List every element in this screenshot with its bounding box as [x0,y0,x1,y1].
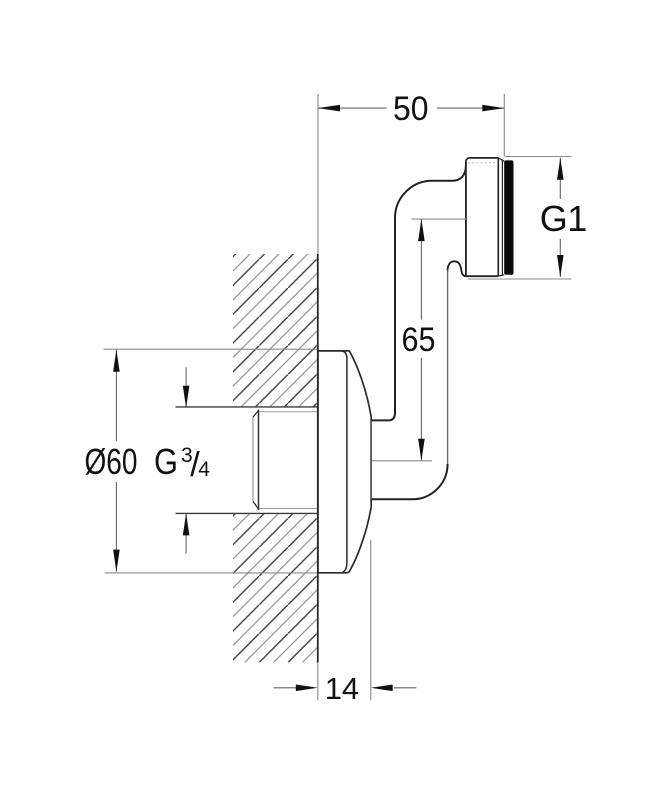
centerline top outlet (65 ref) [412,218,466,220]
dim 14 arrow pointing left [371,685,393,692]
dim G1 arrow down [557,255,564,277]
union nut top edge [468,157,498,159]
threaded nipple chamfer bottom [253,502,259,510]
dim G1 line bottom segment [559,239,561,277]
dim 14 extension line right (flange front) [370,540,372,700]
union nut left face edge [465,160,467,276]
s-pipe body fill [372,165,466,499]
dim 50 extension line right [503,94,505,157]
dim 14 arrow pointing right [296,685,318,692]
union nut ring line [501,160,503,275]
extension line dia60 bottom (over wall) [105,572,318,574]
dim G3-4 arrow up (to thread bottom) [183,513,190,535]
dim 50 line right segment [437,107,504,109]
threaded nipple thread root bottom [259,508,318,510]
svg-text:14: 14 [325,671,359,706]
s-pipe inner contour (bottom bend) [372,464,448,499]
extension line dia60 top (over wall) [104,348,318,350]
G1 seal band (black) [504,160,513,274]
wall hole top edge / G3-4 extension [176,406,318,408]
dim 50 line left segment [318,107,387,109]
svg-text:50: 50 [393,90,429,128]
s-pipe right edge [447,270,449,464]
dim dia60 line bottom segment [115,482,117,572]
svg-text:Ø60: Ø60 [85,441,138,482]
union nut chamfer top [498,158,504,161]
dim 14 right tail [394,687,416,689]
dim 65 arrow up [418,219,425,241]
threaded nipple thread start edge [258,410,260,511]
s-pipe outer contour (top) [372,165,466,420]
union nut bottom edge [465,275,498,277]
dim G1 extension line bottom [468,278,572,280]
dim G1 arrow up [557,158,564,180]
dim 14 left tail [274,687,298,689]
dim 65 line top segment [420,219,422,320]
union nut chamfer bottom [498,275,504,276]
union nut thread texture dotted line [468,162,497,164]
flange body (wall rosette) [318,351,371,573]
flange dome base junction line [342,351,347,573]
threaded nipple chamfer top [253,411,259,418]
svg-text:1: 1 [567,198,587,239]
dim G1 line top segment [559,158,561,199]
dim 65 line bottom segment [420,358,422,461]
dim 50 extension line left [317,94,319,254]
svg-text:65: 65 [402,321,436,359]
dim G3-4 line lower segment [185,513,187,553]
wall hatched section (lower part, below pipe hole) [233,514,318,663]
threaded nipple end face [252,417,254,502]
wall hatched section (upper part, above pipe hole) [233,254,318,407]
threaded nipple thread root top [259,411,318,413]
wall hole bottom edge / G3-4 extension [176,512,318,514]
dim 50 arrow left [318,105,340,112]
union nut right face line [497,158,499,276]
centerline bottom outlet [372,460,432,462]
svg-text:G: G [540,198,568,239]
union nut body fill [466,158,504,276]
dim dia60 arrow up [113,350,120,372]
dim G3-4 arrow down (to thread top) [183,386,190,408]
wall face line [317,254,319,662]
dim G3-4 line upper segment [185,367,187,407]
s-pipe neck shoulder arch [448,261,466,276]
dim dia60 arrow down [113,550,120,572]
dim G1 extension line top [505,156,572,158]
dim dia60 line top segment [115,349,117,441]
dim 65 arrow down [418,439,425,461]
svg-text:4: 4 [198,458,210,481]
dim 14 extension line left (wall face) [317,662,319,700]
dim 50 arrow right [482,105,504,112]
svg-text:G: G [154,441,178,482]
